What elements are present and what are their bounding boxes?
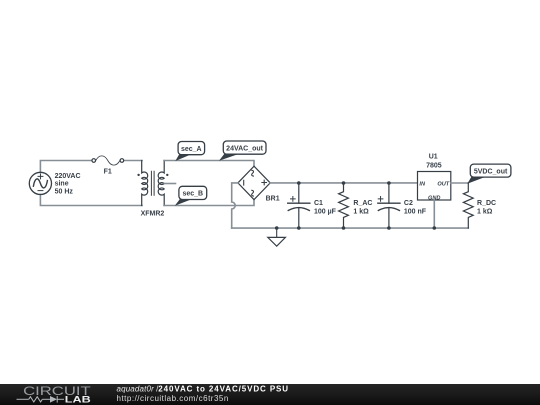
svg-text:sec_B: sec_B bbox=[182, 191, 203, 198]
svg-text:sec_A: sec_A bbox=[181, 146, 202, 153]
svg-text:aquadat0r / 240VAC to 24VAC/5V: aquadat0r / 240VAC to 24VAC/5VDC PSU bbox=[117, 384, 289, 393]
capacitor C1 100uF bbox=[288, 181, 310, 230]
wire U1 GND pin bbox=[433, 200, 435, 228]
svg-text:100 µF: 100 µF bbox=[314, 208, 337, 215]
resistor R_AC bbox=[339, 181, 349, 230]
svg-text:220VAC: 220VAC bbox=[55, 173, 81, 180]
svg-text:1 kΩ: 1 kΩ bbox=[477, 208, 493, 215]
node label 5VDC_out bbox=[467, 164, 511, 184]
svg-text:C2: C2 bbox=[404, 200, 413, 207]
label R_DC 1 kOhm bbox=[477, 200, 496, 216]
node label 24VAC_out bbox=[219, 141, 266, 161]
resistor R_DC bbox=[463, 183, 473, 228]
capacitor C2 100nF bbox=[378, 181, 400, 230]
label C2 100 nF bbox=[404, 200, 427, 216]
transformer XFMR2 bbox=[137, 161, 168, 206]
bridge rectifier BR1 bbox=[238, 166, 270, 199]
label 220VAC sine 50 Hz bbox=[55, 173, 81, 196]
svg-text:http://circuitlab.com/c6tr35n: http://circuitlab.com/c6tr35n bbox=[117, 394, 229, 403]
svg-text:F1: F1 bbox=[104, 169, 112, 176]
regulator U1 7805 bbox=[418, 154, 451, 202]
center tap stub bbox=[164, 183, 175, 185]
ground bbox=[268, 226, 286, 246]
fuse F1 bbox=[92, 156, 124, 165]
wire source top to fuse bbox=[40, 161, 92, 173]
svg-text:50 Hz: 50 Hz bbox=[55, 189, 74, 196]
wire U1 OUT bbox=[451, 182, 469, 184]
node label sec_B bbox=[175, 186, 207, 205]
junction U1 GND bbox=[433, 226, 437, 230]
svg-text:LAB: LAB bbox=[65, 394, 91, 404]
node label sec_A bbox=[175, 142, 204, 162]
svg-text:IN: IN bbox=[419, 182, 426, 188]
svg-text:sine: sine bbox=[55, 181, 69, 188]
logo schematic glyph bbox=[17, 396, 65, 403]
label C1 100 uF bbox=[314, 200, 337, 216]
wire sec_B to bridge bottom bbox=[164, 200, 254, 206]
label R_AC 1 kOhm bbox=[353, 200, 372, 216]
svg-text:BR1: BR1 bbox=[266, 196, 280, 203]
wire DC plus rail bbox=[270, 182, 417, 184]
svg-text:XFMR2: XFMR2 bbox=[141, 210, 165, 217]
svg-text:5VDC_out: 5VDC_out bbox=[474, 168, 508, 175]
wire ground rail bbox=[232, 227, 469, 229]
wire fuse to transformer primary bbox=[124, 160, 142, 162]
svg-text:OUT: OUT bbox=[437, 182, 449, 188]
svg-text:C1: C1 bbox=[314, 200, 323, 207]
svg-text:U1: U1 bbox=[429, 154, 438, 161]
wire sec_A to bridge top bbox=[164, 161, 254, 167]
svg-text:7805: 7805 bbox=[426, 162, 442, 169]
svg-text:100 nF: 100 nF bbox=[404, 208, 427, 215]
svg-text:R_DC: R_DC bbox=[477, 200, 496, 207]
wire source bottom rail bbox=[40, 194, 142, 205]
svg-text:1 kΩ: 1 kΩ bbox=[353, 208, 369, 215]
voltage source V1 (220VAC sine) bbox=[29, 172, 51, 194]
wire bridge minus down with hop over sec_B bbox=[232, 183, 238, 228]
svg-text:24VAC_out: 24VAC_out bbox=[226, 145, 263, 152]
svg-text:R_AC: R_AC bbox=[353, 200, 372, 207]
